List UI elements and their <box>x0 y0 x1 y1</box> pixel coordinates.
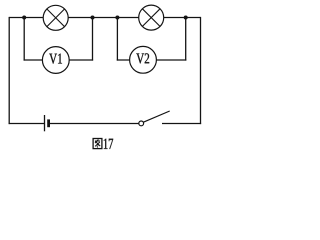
wire bottom right (switch to corner) <box>162 123 201 125</box>
wire left vertical <box>8 17 10 124</box>
wire V2 branch bottom horizontal <box>117 59 187 61</box>
wire V2 branch right vertical <box>185 18 187 61</box>
wire V2 branch left vertical <box>116 18 118 61</box>
node junction dot C (left of lamp2) <box>115 16 119 20</box>
wire bottom left (to battery) <box>9 123 45 125</box>
lamp 2 (circle with X) <box>139 5 164 30</box>
wire V1 branch bottom horizontal <box>24 59 94 61</box>
node junction dot D (top right) <box>184 16 188 20</box>
wire V1 branch left vertical <box>23 18 25 61</box>
voltmeter V2 <box>130 46 157 73</box>
caption text 17 <box>104 139 113 149</box>
wire V1 branch right vertical <box>92 18 94 61</box>
wire right vertical <box>200 17 202 124</box>
voltmeter V1 <box>42 47 69 74</box>
lamp 1 (circle with X) <box>43 5 68 30</box>
node junction dot B (between lamp1 and lamp2) <box>91 16 95 20</box>
battery (cell) <box>45 115 49 131</box>
wire top horizontal <box>9 17 200 19</box>
wire bottom middle (battery to switch) <box>49 123 138 125</box>
caption hand-drawn glyph 图 <box>93 139 102 149</box>
switch (open, pivot circle + lever) <box>139 111 170 126</box>
node junction dot A (top left) <box>22 16 26 20</box>
